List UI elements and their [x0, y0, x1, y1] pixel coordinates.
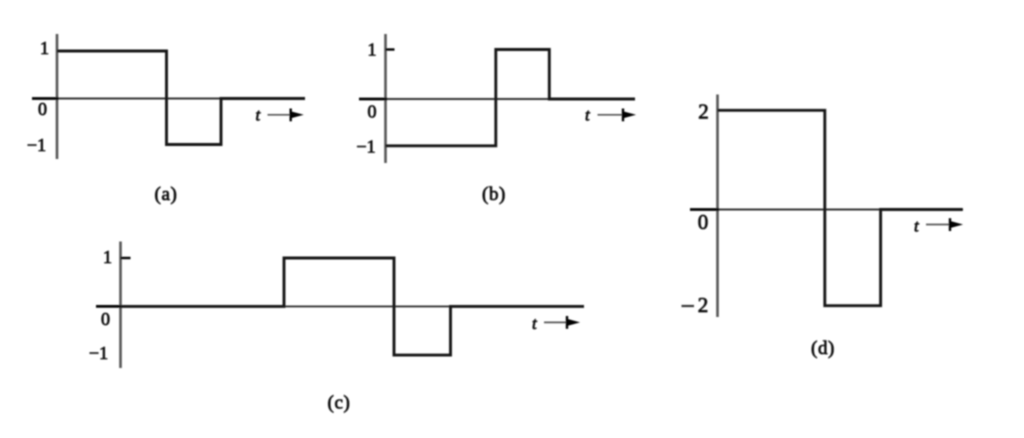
- svg-text:−1: −1: [27, 135, 46, 155]
- svg-text:0: 0: [38, 99, 47, 119]
- svg-text:0: 0: [698, 210, 709, 234]
- svg-text:1: 1: [40, 38, 49, 58]
- svg-text:2: 2: [698, 100, 709, 124]
- svg-text:1: 1: [103, 247, 112, 267]
- svg-text:(d): (d): [811, 338, 835, 359]
- svg-text:0: 0: [368, 102, 377, 122]
- svg-text:−1: −1: [356, 137, 375, 157]
- svg-text:(b): (b): [482, 184, 506, 205]
- svg-text:(a): (a): [155, 184, 178, 205]
- svg-text:2: 2: [698, 293, 709, 317]
- svg-text:(c): (c): [328, 393, 351, 414]
- svg-text:1: 1: [368, 40, 377, 60]
- svg-text:−1: −1: [89, 343, 108, 363]
- svg-text:0: 0: [101, 309, 110, 329]
